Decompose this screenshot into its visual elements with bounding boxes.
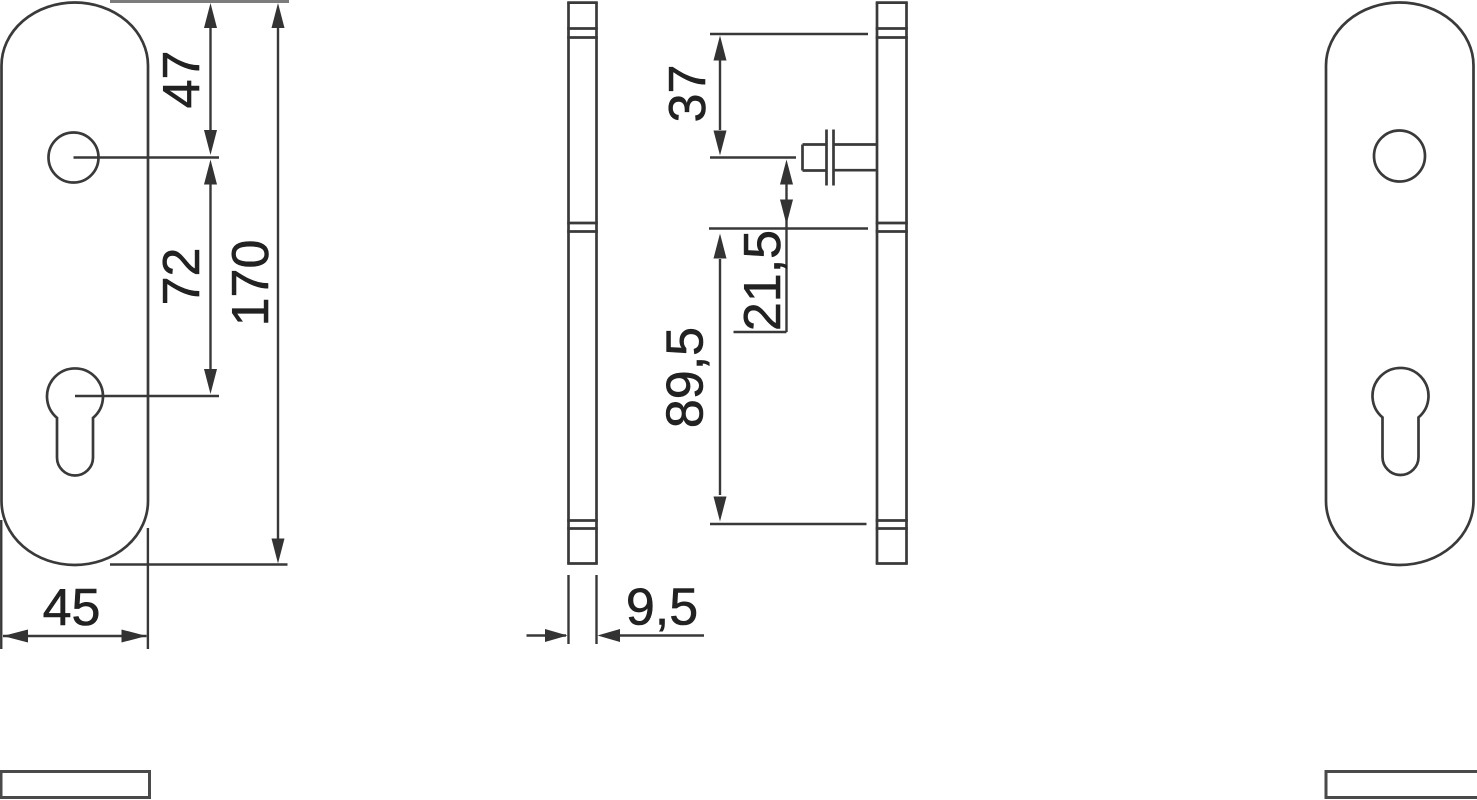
svg-text:45: 45 [43,579,101,637]
svg-text:9,5: 9,5 [626,579,698,637]
svg-text:21,5: 21,5 [734,230,792,331]
svg-text:47: 47 [153,51,211,109]
svg-text:89,5: 89,5 [657,327,715,428]
svg-text:170: 170 [222,240,280,327]
svg-text:37: 37 [659,65,717,123]
svg-text:72: 72 [153,248,211,306]
